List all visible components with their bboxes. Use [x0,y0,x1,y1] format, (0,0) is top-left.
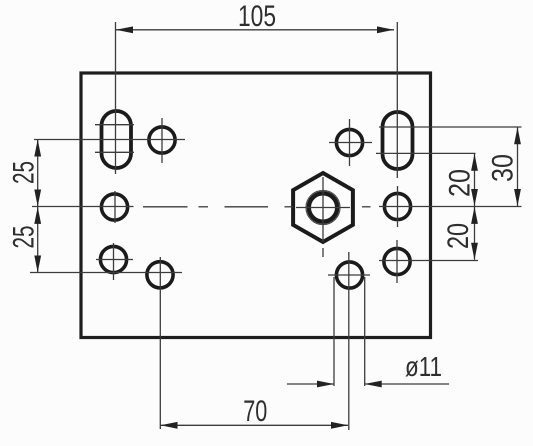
row-2 axis short dash right of hexagon [362,206,371,208]
dim 25 upper: bottom arrowhead [34,190,41,207]
hole A (162,140.5) [149,127,175,153]
dim 105: right arrowhead [377,26,394,33]
slot S1 upper arc center line [95,124,134,126]
dim 20 lower: dimension line [474,207,476,260]
dim 20 upper: dimension line [474,154,476,206]
svg-text:ø11: ø11 [405,351,442,382]
hole B (349.5,142.5) [336,129,362,155]
row-3 center line / extension for dim 25 lower [30,272,182,274]
dim ø11: right arrowhead (pointing left) [365,381,382,388]
slot S2 lower arc center line (extension for dim 20 upper) [376,152,476,154]
dim 25 lower: bottom arrowhead [34,256,41,273]
hexagon vertical center line lower dash [322,248,324,257]
svg-text:30: 30 [487,154,520,182]
hole C (115,207) [101,194,127,220]
row-2 dash-dot axis line [143,206,188,208]
hole D (397.5,206.5) [384,193,410,219]
svg-text:70: 70 [243,395,267,428]
hole E (114,261) [100,246,126,272]
hole E horizontal center line [96,259,133,261]
hole H vertical center line (extension for dim 70 right) [348,252,350,430]
dim 20 lower: top arrowhead [471,207,478,224]
hole D horizontal center line (extension for dims 20/30) [379,206,522,208]
dim ø11: left dimension line segment [287,383,334,385]
dim 20 upper: top arrowhead [471,154,478,171]
dim 105: extension line left (slot S1 axis) [115,22,117,174]
dim 105: extension line right (slot S2 axis) [396,22,398,178]
dim 25 upper: dimension line [37,140,39,207]
dim 105: left arrowhead [116,26,133,33]
hole A vertical center line [161,118,163,163]
dim 30: dimension line [517,127,519,206]
hole B vertical center line [349,119,351,166]
slot S1 lower arc center line [95,151,134,153]
thread circle [306,191,340,225]
slot S1 top-left (obround hole) [102,111,132,168]
slot S2 upper arc center line (extension for dim 30) [379,126,522,128]
dim ø11: extension line right [364,277,366,386]
dim 20 upper: bottom arrowhead [471,189,478,206]
row-1 center line / extension for dim 25 upper [34,139,185,141]
svg-text:20: 20 [444,169,477,197]
hole H horizontal center line [328,274,370,276]
dim 25 lower: top arrowhead [34,207,41,224]
dim 70: dimension line [161,424,349,426]
hole G (160.5,274.5) [147,262,173,288]
hole H (349.5,275) ø11 [336,262,362,288]
hexagon horizontal center line (inside) [296,207,350,209]
dim ø11: left arrowhead (pointing right) [317,381,334,388]
hole F vertical center line [396,240,398,283]
svg-text:20: 20 [442,223,475,249]
hole D vertical center line [397,186,399,227]
hole C vertical center line [114,191,116,223]
dim 20 lower: bottom arrowhead [471,243,478,260]
hole G vertical center line (extension for dim 70 left) [159,257,161,429]
svg-text:105: 105 [238,0,276,33]
svg-text:25: 25 [8,226,41,249]
dim 30: bottom arrowhead [514,189,521,206]
dim 25 upper: top arrowhead [34,140,41,157]
dim 30: top arrowhead [514,127,521,144]
slot S2 top-right (obround hole) [383,112,413,169]
hole F horizontal center line (extension for dim 20 lower) [379,260,478,262]
dim 105: dimension line [116,29,394,31]
hole F (397,261.5) [384,248,410,274]
hole B horizontal center line [329,142,372,144]
dim 70: left arrowhead [161,422,178,429]
dim ø11: right dimension line segment / leader [365,383,449,385]
hexagon (center counterbore) [293,173,353,242]
dim 25 lower: dimension line [37,207,39,273]
svg-text:25: 25 [8,161,41,184]
hexagon vertical center line [322,177,324,242]
tapped hole inner circle [309,193,337,221]
dim 70: right arrowhead [331,422,348,429]
dim ø11: extension line left [333,277,335,386]
hole E vertical center line [113,243,115,280]
row-2 center line left / extension for dim 25 [32,206,134,208]
plate outline [81,73,431,338]
